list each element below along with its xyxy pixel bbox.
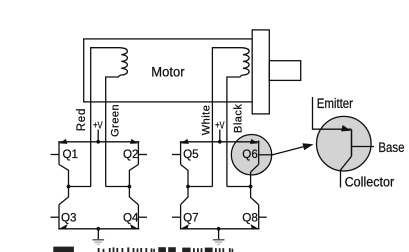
svg-text:Q8: Q8 <box>242 210 258 224</box>
svg-text:Base: Base <box>378 140 404 155</box>
svg-text:Q4: Q4 <box>123 210 139 224</box>
svg-text:Q2: Q2 <box>123 147 139 161</box>
svg-text:Q6: Q6 <box>242 147 258 161</box>
svg-text:Collector: Collector <box>345 174 395 190</box>
svg-text:Q1: Q1 <box>63 147 79 161</box>
svg-text:White: White <box>200 105 212 136</box>
svg-text:Q5: Q5 <box>183 147 199 161</box>
svg-text:Motor: Motor <box>151 64 185 80</box>
svg-text:Red: Red <box>76 108 88 132</box>
svg-text:Green: Green <box>110 104 122 137</box>
svg-text:Emitter: Emitter <box>317 96 353 111</box>
svg-text:Q3: Q3 <box>61 210 77 224</box>
svg-text:+V: +V <box>215 119 225 130</box>
svg-text:+V: +V <box>93 119 103 130</box>
svg-text:Black: Black <box>233 104 245 133</box>
svg-text:Q7: Q7 <box>183 210 199 224</box>
